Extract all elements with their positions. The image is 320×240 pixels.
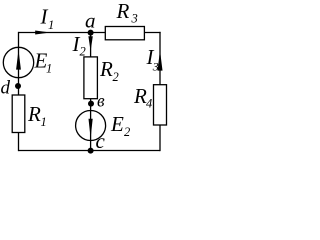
wire top-right horizontal from R3 to right rail	[144, 32, 160, 34]
svg-text:c: c	[96, 129, 106, 153]
E2 arrow down	[89, 119, 93, 138]
wire bottom horizontal	[19, 150, 161, 152]
EMF source E2 circle	[76, 111, 106, 141]
label I1	[40, 4, 55, 32]
svg-text:R: R	[99, 57, 113, 81]
label I2	[72, 32, 86, 59]
svg-text:a: a	[85, 9, 96, 33]
svg-text:1: 1	[46, 62, 52, 76]
label E1	[34, 49, 53, 76]
current arrow I1	[35, 31, 50, 35]
svg-text:2: 2	[113, 70, 119, 84]
label R1	[27, 102, 47, 129]
node d	[1, 78, 22, 99]
svg-text:2: 2	[124, 125, 130, 139]
wire middle rail lower vertical through E2	[90, 99, 92, 151]
svg-text:3: 3	[131, 11, 138, 25]
node в	[88, 91, 105, 111]
svg-text:E: E	[110, 112, 124, 136]
wire top-left horizontal from left rail to R3	[19, 32, 106, 34]
svg-text:в: в	[97, 91, 105, 111]
svg-text:R: R	[133, 84, 147, 108]
node a	[85, 9, 96, 36]
EMF source E1 circle	[3, 47, 33, 77]
wire right rail upper vertical	[159, 32, 161, 85]
E1 arrow up	[16, 50, 21, 70]
svg-text:R: R	[116, 0, 130, 23]
wire middle rail upper vertical	[90, 33, 92, 57]
svg-text:d: d	[1, 78, 11, 99]
svg-text:R: R	[27, 102, 41, 126]
svg-text:2: 2	[80, 45, 86, 59]
svg-text:1: 1	[41, 115, 47, 129]
resistor R2	[84, 57, 98, 99]
svg-text:1: 1	[48, 18, 54, 32]
label R3	[116, 0, 138, 25]
resistor R3	[105, 27, 144, 40]
wire left rail lower vertical	[18, 133, 20, 152]
wire left rail vertical	[18, 32, 20, 95]
current arrow I2	[88, 36, 92, 51]
svg-text:4: 4	[146, 97, 152, 111]
current arrow I3	[158, 50, 163, 70]
label R4	[133, 84, 152, 111]
label R2	[99, 57, 119, 84]
resistor R1	[12, 95, 25, 133]
resistor R4	[154, 85, 167, 125]
svg-text:3: 3	[152, 59, 159, 73]
label E2	[110, 112, 130, 139]
label I3	[146, 45, 159, 73]
wire right rail lower vertical	[159, 125, 161, 151]
node c	[88, 129, 106, 154]
